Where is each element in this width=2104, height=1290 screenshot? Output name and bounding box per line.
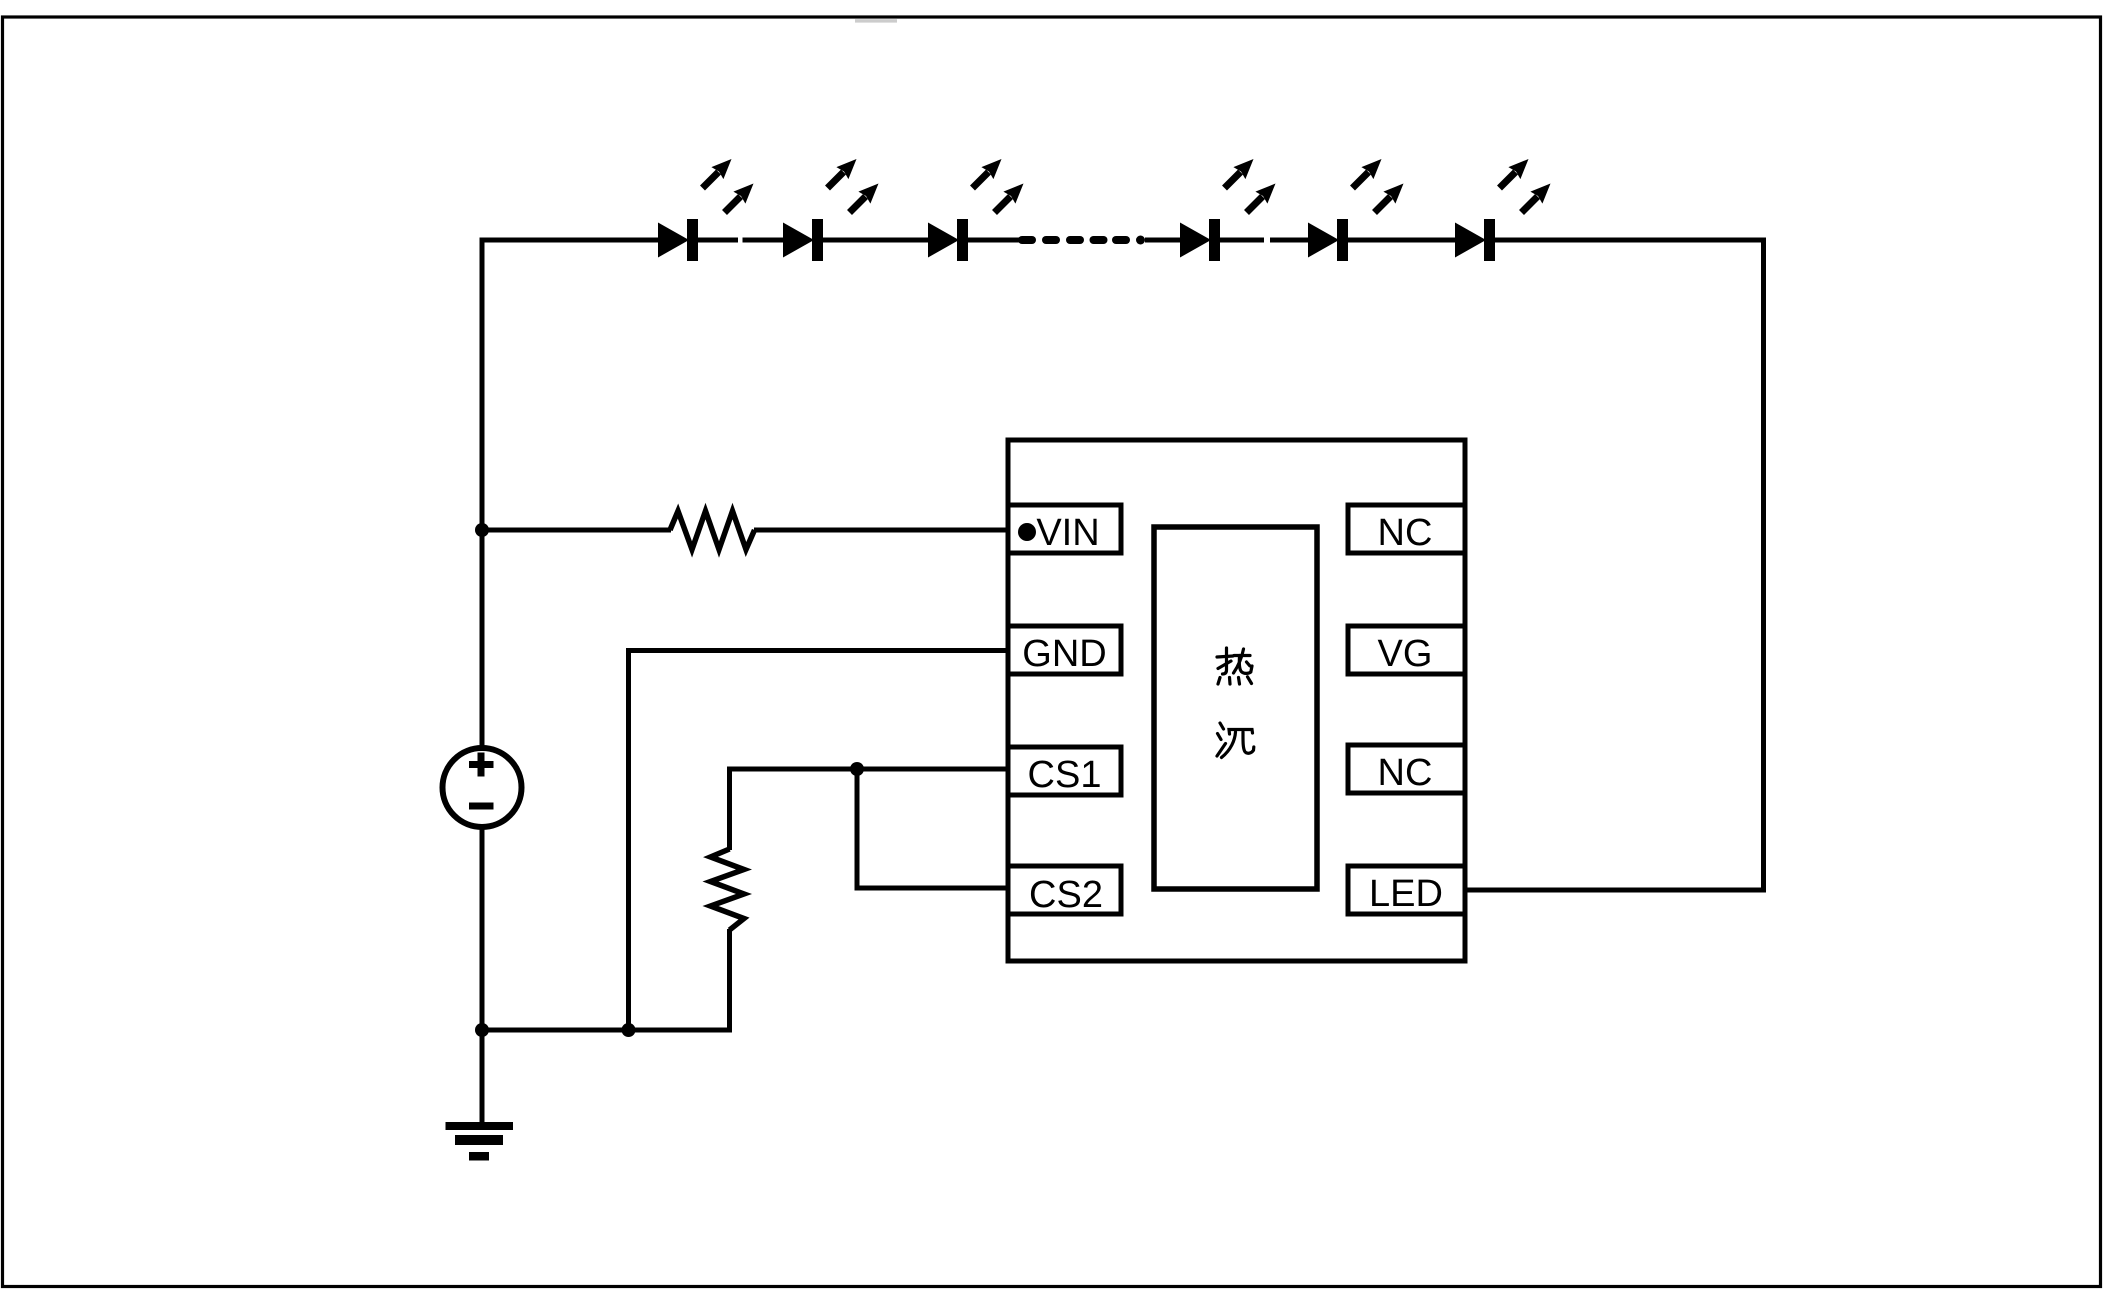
- wire: CS1 corner down to resistor R2: [727, 767, 732, 851]
- wire: resistor R2 down to bottom rail: [727, 929, 732, 1033]
- wire: [698, 238, 738, 243]
- pin CS1 box: [1008, 747, 1121, 795]
- wire: left vertical upper: [480, 238, 485, 749]
- voltage source V1: [443, 748, 522, 827]
- ground: [446, 1122, 514, 1161]
- wire: [743, 238, 787, 243]
- svg-text:VIN: VIN: [1036, 512, 1099, 554]
- node: CS1/CS2 junction: [850, 762, 864, 776]
- pin VG box: [1348, 626, 1465, 674]
- wire: [968, 238, 1022, 243]
- pin 1 marker dot: [1018, 523, 1036, 541]
- wire: [1348, 238, 1458, 243]
- wire: [1220, 238, 1264, 243]
- LED D5: [1308, 159, 1404, 261]
- pin NC box (second right): [1348, 745, 1465, 793]
- LED D1: [658, 159, 754, 261]
- node: bottom-left junction: [475, 1023, 489, 1037]
- svg-text:LED: LED: [1369, 873, 1443, 915]
- wire: bottom rail: [480, 1028, 733, 1033]
- pin VIN box: [1008, 505, 1121, 553]
- heat sink label glyph 1 (re): [1217, 648, 1252, 684]
- wire: top rail left segment: [480, 238, 662, 243]
- heat sink pad outline: [1154, 527, 1317, 889]
- pin CS2 box: [1008, 866, 1121, 914]
- svg-text:CS2: CS2: [1029, 874, 1103, 916]
- wire: junction down and right to CS2 pin: [857, 769, 1010, 888]
- heat sink label glyph 2 (chen): [1217, 723, 1254, 758]
- pin GND box: [1008, 626, 1121, 674]
- LED D2: [783, 159, 879, 261]
- LED D3: [928, 159, 1024, 261]
- LED D6: [1455, 159, 1551, 261]
- LED D4: [1180, 159, 1276, 261]
- pin LED box: [1348, 866, 1465, 914]
- node: GND bottom junction: [622, 1023, 636, 1037]
- pin NC box (top right): [1348, 505, 1465, 553]
- wire: rounded end cap before dashes: [1022, 236, 1032, 244]
- svg-text:VG: VG: [1378, 633, 1433, 675]
- wire: CS1 pin leftward: [730, 767, 1011, 772]
- op-amp U1 package outline: [1008, 440, 1465, 961]
- wire: GND pin leftward and down: [629, 651, 1011, 1031]
- resistor R2 (vertical): [711, 849, 745, 930]
- wire: [1270, 238, 1311, 243]
- node: VIN branch junction: [475, 523, 489, 537]
- resistor R1 (horizontal): [670, 511, 755, 550]
- wire: dot end of dashes: [1136, 236, 1145, 245]
- wire: [1145, 238, 1183, 243]
- svg-text:GND: GND: [1022, 633, 1106, 675]
- wire: [823, 238, 931, 243]
- svg-text:NC: NC: [1378, 752, 1433, 794]
- svg-text:NC: NC: [1378, 512, 1433, 554]
- svg-text:CS1: CS1: [1028, 754, 1102, 796]
- wire: dashed continuation: [1046, 236, 1126, 244]
- wire: top rail to right vertical down to LED pin: [1462, 240, 1764, 890]
- wire: to resistor R1: [482, 528, 671, 533]
- wire: left vertical lower: [480, 827, 485, 1123]
- wire: resistor to VIN pin: [754, 528, 1010, 533]
